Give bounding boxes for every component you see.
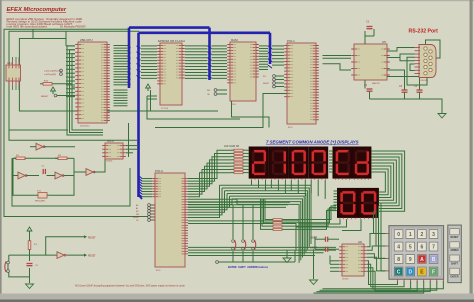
- wire buttons verticals: [232, 205, 234, 239]
- node RESET out labels: [84, 235, 87, 238]
- wire loop Cd to 00 displays: [371, 151, 405, 211]
- svg-text:RAM: RAM: [231, 38, 238, 42]
- wire CPU bottom to U6 area: [128, 123, 130, 157]
- bus vertical at EPROM left: [137, 33, 140, 197]
- wire EPROM left stubs: [141, 45, 157, 47]
- IC RAM: [230, 42, 256, 101]
- wire U8 to keypad: [367, 234, 386, 247]
- display 7seg digit 0b: [309, 147, 328, 179]
- inverter U2:B: [55, 172, 62, 179]
- wire left loop 2: [9, 31, 139, 140]
- wire mid horizontal: [9, 129, 68, 131]
- resistor pack RN1 220 OHM: [234, 149, 243, 151]
- wire 00 bottom drops: [299, 219, 340, 224]
- resistor R12: [43, 83, 52, 86]
- wire RAM right stubs: [259, 45, 268, 47]
- svg-text:PIO-0: PIO-0: [155, 169, 163, 173]
- svg-text:a a(SN ps)(SF): a a(SN ps)(SF): [44, 74, 56, 76]
- bus diagonals PIO-0: [139, 176, 142, 179]
- IC EPROM: [160, 43, 182, 105]
- wire R12 to CPU: [55, 84, 75, 87]
- bus vertical at PIO-1 left: [269, 33, 272, 64]
- connector J1 DB9 RS-232: [419, 45, 436, 78]
- svg-text:Z84C0010: Z84C0010: [80, 126, 90, 128]
- svg-text:8: 8: [397, 257, 400, 263]
- svg-text:MAX232: MAX232: [372, 82, 381, 85]
- wire fan PIO-0 to resistor pack: [188, 150, 231, 178]
- svg-text:All 0.1uwe 100nF decoupling ca: All 0.1uwe 100nF decoupling capacitors b…: [75, 285, 185, 288]
- pushbuttons BATRE SHIFT ADDR: [232, 240, 235, 243]
- svg-text:9: 9: [409, 257, 412, 263]
- bus horizontal top 2: [139, 31, 271, 34]
- wire osc ring: [13, 157, 16, 159]
- wire pack to display: [248, 149, 250, 151]
- IC PIO-0: [155, 173, 185, 267]
- capacitor C1: [42, 169, 44, 174]
- node PIO-1 terminals: [273, 75, 276, 78]
- resistor R3: [28, 241, 31, 250]
- resistor pack RN2: [273, 219, 282, 221]
- power arrow EPROM: [146, 84, 151, 88]
- keypad pin stubs: [397, 279, 399, 282]
- svg-text:EFEX Microcomputer: EFEX Microcomputer: [7, 7, 67, 13]
- wire U6 right: [126, 145, 138, 147]
- svg-text:CONN-D9F: CONN-D9F: [419, 80, 429, 82]
- svg-text:RESET: RESET: [451, 236, 460, 239]
- svg-text:Intel HEX file download added.: Intel HEX file download added.: [7, 25, 48, 29]
- wire PIO-0 low runs: [188, 220, 299, 222]
- svg-text:RESET: RESET: [133, 217, 140, 219]
- wire osc box bottom: [12, 158, 130, 206]
- wire 00 left pins: [334, 190, 338, 192]
- capacitor C5: [402, 89, 408, 91]
- wire PIO-1 left stubs: [272, 45, 284, 47]
- wire button row horizontals: [188, 201, 290, 203]
- power arrow reset: [27, 227, 32, 231]
- wire display bottom drops: [251, 180, 253, 185]
- wire caps to ground: [370, 99, 443, 113]
- svg-text:RESET: RESET: [88, 256, 96, 258]
- wire DB9 top loop: [426, 40, 441, 58]
- wire caps common: [314, 239, 316, 249]
- svg-text:U5: U5: [382, 40, 386, 44]
- wire left loop 3: [19, 39, 218, 112]
- node RESET terminal: [54, 94, 57, 97]
- page bottom bar: [0, 294, 474, 300]
- bus entry diagonals PIO-1: [268, 46, 272, 49]
- panel side buttons: [448, 225, 462, 283]
- capacitor C2: [27, 263, 33, 265]
- svg-text:PIO-1: PIO-1: [287, 39, 295, 43]
- wire reset net: [9, 254, 57, 256]
- svg-text:RESET: RESET: [88, 237, 96, 239]
- ground below caps: [310, 279, 318, 281]
- ground near RS232: [438, 113, 446, 115]
- wire reset vertical: [29, 234, 31, 241]
- wire below RAM: [232, 101, 270, 128]
- capacitor C4: [367, 88, 373, 90]
- display 7seg digit 00a: [337, 188, 357, 217]
- wire EPROM ctrl wires: [150, 90, 152, 111]
- svg-text:0: 0: [397, 232, 400, 238]
- wire RAM left stubs: [212, 45, 228, 47]
- wire PIO-1 to MAX232: [323, 55, 352, 57]
- bus vertical between EPROM and RAM: [208, 28, 211, 80]
- node terminal pins left of CPU: [60, 69, 63, 72]
- svg-text:B: B: [432, 257, 436, 263]
- wire Cd left pins: [329, 150, 333, 152]
- svg-text:74C923: 74C923: [342, 279, 348, 281]
- svg-text:7 SEGMENT COMMON ANODE (+) DIS: 7 SEGMENT COMMON ANODE (+) DISPLAYS: [266, 140, 359, 145]
- ground U8 left: [283, 257, 291, 259]
- bus entry diagonals RAM: [208, 46, 212, 49]
- svg-text:BATRE SHIFT ADDR/W buttons: BATRE SHIFT ADDR/W buttons: [228, 265, 269, 269]
- svg-text:4: 4: [397, 245, 400, 251]
- svg-text:220 OHM X8: 220 OHM X8: [224, 144, 240, 148]
- IC MAX232 U5: [354, 44, 387, 80]
- wire U8 left verticals: [314, 237, 316, 248]
- wire fan PIO-0 mid: [188, 199, 237, 204]
- svg-text:Dr.Mustafa PEKER: Dr.Mustafa PEKER: [60, 25, 86, 29]
- display 7seg digit d: [352, 147, 371, 179]
- page left border: [0, 0, 2, 302]
- wire EPROM right stubs: [185, 45, 208, 47]
- wire CPU right stubs to bus: [114, 45, 128, 47]
- inverter U2:A: [18, 172, 25, 179]
- wire keypad row feeders: [374, 211, 386, 233]
- svg-text:ADRES: ADRES: [450, 249, 459, 252]
- U1:A pin stubs: [8, 61, 10, 65]
- display 7seg digit 1: [269, 147, 288, 179]
- wire CPU left stubs: [66, 45, 75, 47]
- node button common terminal: [216, 261, 219, 264]
- display 7seg digit 2: [249, 147, 268, 179]
- svg-text:a a(NC ps)(SF)ua NC: a a(NC ps)(SF)ua NC: [44, 71, 62, 73]
- wire keypad bottom loops: [314, 281, 424, 293]
- bus vertical at CPU right: [128, 28, 131, 88]
- svg-text:C: C: [397, 270, 401, 276]
- svg-text:F: F: [432, 270, 435, 276]
- svg-text:6: 6: [421, 245, 424, 251]
- svg-text:A1: A1: [136, 207, 138, 210]
- PIO-0 right pin stubs: [185, 178, 188, 180]
- svg-text:U8: U8: [358, 240, 362, 244]
- bus horizontal top 1: [129, 26, 210, 29]
- svg-text:A0: A0: [136, 204, 138, 207]
- svg-text:Z80-CPU: Z80-CPU: [80, 38, 93, 42]
- svg-text:A: A: [420, 257, 424, 263]
- resistor R2: [58, 157, 67, 160]
- svg-text:2: 2: [421, 232, 424, 238]
- display 7seg digit 00b: [358, 188, 378, 217]
- inverter U3:A clk: [36, 143, 43, 150]
- svg-text:74LS32: 74LS32: [106, 161, 112, 163]
- svg-text:7: 7: [432, 245, 435, 251]
- display 7seg digit C: [333, 147, 352, 179]
- svg-text:ENTER: ENTER: [450, 276, 458, 279]
- node PIO-0 control terminals: [148, 204, 151, 207]
- svg-text:FREQ=4MHz: FREQ=4MHz: [35, 201, 45, 203]
- IC Z80 CPU: [78, 42, 107, 123]
- page right border: [470, 0, 473, 302]
- inverter U4:A reset: [57, 252, 64, 259]
- bus entry diagonals EPROM: [137, 46, 141, 49]
- wire bundle displays to U8: [220, 185, 312, 244]
- svg-text:1: 1: [409, 232, 412, 238]
- wire clk: [30, 146, 36, 148]
- display 7seg digit 0a: [289, 147, 308, 179]
- svg-text:5: 5: [409, 245, 412, 251]
- capacitor C6: [417, 89, 423, 91]
- capacitor C3: [367, 26, 373, 28]
- node RAM WE OE terminals: [214, 89, 217, 92]
- pushbutton reset: [7, 261, 10, 264]
- svg-text:27C256: 27C256: [161, 108, 169, 110]
- wire top link verticals: [32, 29, 34, 38]
- wire MAX232 right to caps: [387, 70, 405, 80]
- IC U8 keypad encoder: [342, 244, 364, 276]
- svg-text:RS-232 Port: RS-232 Port: [409, 29, 439, 35]
- inverter U2:C buffer: [86, 169, 93, 176]
- wire U8 left stubs: [330, 260, 339, 262]
- wire CPU lower right stubs: [114, 89, 128, 91]
- bus hook PIO-0: [139, 195, 143, 199]
- IC U1:A: [6, 65, 21, 81]
- svg-text:3: 3: [432, 232, 435, 238]
- wire MAX232 to DB9: [387, 48, 415, 52]
- IC PIO-1: [287, 43, 316, 124]
- svg-text:RESET: RESET: [263, 83, 270, 85]
- IC U6:A: [105, 143, 123, 159]
- wire PIO-0 left bus stubs: [142, 178, 152, 180]
- svg-text:RESET: RESET: [41, 96, 49, 98]
- wire PIO-1 reset run: [155, 94, 287, 128]
- page bottom edge: [0, 300, 474, 302]
- svg-text:SHIFT: SHIFT: [451, 262, 458, 265]
- power arrow near CPU: [51, 87, 56, 91]
- svg-text:U6:A: U6:A: [107, 139, 114, 143]
- crystal XT1: [38, 193, 47, 199]
- wire left outer loop: [4, 29, 148, 216]
- resistor R1: [16, 157, 25, 160]
- bus entry diagonals CPU: [128, 46, 131, 49]
- svg-text:D: D: [408, 270, 412, 276]
- svg-text:EPROM OR FLASH: EPROM OR FLASH: [158, 39, 185, 43]
- keypad 4x4 hex: [389, 226, 444, 280]
- wire RN2 routing: [286, 206, 336, 220]
- page top border: [0, 0, 474, 1]
- wire CPU left drops: [67, 46, 103, 135]
- ground reset: [26, 283, 34, 285]
